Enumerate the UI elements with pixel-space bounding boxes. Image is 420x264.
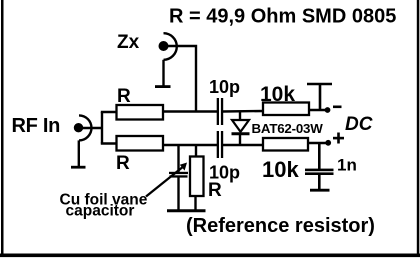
- wire: variable capacitor bottom lead: [177, 178, 179, 211]
- node: DC minus terminal dot: [325, 107, 331, 113]
- border right: [417, 0, 420, 256]
- connector J2 RF In: shield arc: [79, 115, 91, 140]
- resistor R (reference): [190, 157, 204, 197]
- wire: Zx pin to corner: [166, 46, 196, 112]
- wire: reference resistor bottom stub: [194, 196, 196, 210]
- label minus sign: [333, 106, 342, 109]
- wire: variable capacitor top lead: [177, 145, 179, 173]
- connector J2 RF In: center pin dot: [74, 123, 83, 132]
- connector J1 Zx: shield arc: [164, 33, 177, 60]
- svg-text:capacitor: capacitor: [66, 203, 135, 220]
- border left: [1, 0, 4, 256]
- svg-text:BAT62-03W: BAT62-03W: [252, 121, 324, 136]
- wire: top R right lead to C1: [163, 110, 217, 112]
- wire: C3 to ground: [318, 175, 321, 190]
- label plus sign: [333, 137, 344, 140]
- wire: RF In shield to ground: [78, 140, 80, 167]
- svg-text:DC: DC: [345, 114, 373, 135]
- svg-text:R = 49,9 Ohm SMD 0805: R = 49,9 Ohm SMD 0805: [169, 6, 396, 28]
- svg-text:10p: 10p: [209, 77, 240, 97]
- svg-text:(Reference resistor): (Reference resistor): [186, 215, 375, 237]
- wire: top R left lead: [101, 111, 117, 113]
- svg-text:R: R: [208, 180, 222, 201]
- svg-text:Zx: Zx: [117, 32, 140, 53]
- wire: Zx shield to ground: [162, 60, 164, 87]
- svg-text:RF In: RF In: [12, 115, 61, 137]
- wire: bottom 10k right lead: [308, 142, 329, 144]
- svg-text:R: R: [117, 86, 131, 107]
- wire: bottom R left lead: [101, 142, 117, 144]
- wire: plus node to C3: [318, 143, 321, 170]
- connector J1 Zx: center pin dot: [159, 41, 169, 51]
- variable capacitor arrow / callout line: [146, 166, 184, 197]
- svg-text:1n: 1n: [337, 156, 357, 175]
- diode D1 cathode bar: [232, 132, 250, 135]
- wire: bottom R right lead to C2: [163, 144, 217, 146]
- wire: reference resistor top stub: [195, 145, 197, 157]
- diode D1 top lead: [239, 111, 241, 122]
- border bottom: [0, 254, 420, 258]
- open terminal crossbar (minus): [307, 83, 332, 86]
- wire: RF In pin to bridge: [81, 127, 103, 129]
- resistor 10k (bottom): [263, 138, 308, 151]
- capacitor C3 1n plates: [305, 169, 334, 172]
- diode D1 bottom lead: [239, 134, 241, 146]
- ground (C3): [310, 189, 330, 192]
- ground (Zx): [155, 85, 171, 88]
- svg-text:R: R: [116, 153, 130, 174]
- wire: C1 to top 10k: [223, 110, 264, 113]
- wire: top 10k right lead: [309, 109, 328, 111]
- variable capacitor (Cu foil vane) plates: [169, 172, 188, 174]
- resistor R (bottom bridge arm): [117, 136, 164, 151]
- node: DC plus terminal dot: [325, 140, 331, 146]
- capacitor C1 10p plates: [217, 98, 219, 125]
- diode D1 anode triangle: [232, 120, 249, 132]
- ground (shared, variable cap + reference R): [167, 209, 206, 212]
- resistor 10k (top): [263, 103, 309, 116]
- svg-text:10k: 10k: [262, 157, 299, 182]
- wire: minus terminal riser: [319, 84, 322, 110]
- resistor R (top bridge arm): [117, 105, 164, 120]
- capacitor C2 10p plates: [217, 131, 219, 158]
- wire: bridge input vertical: [101, 112, 103, 144]
- ground (RF In): [71, 166, 86, 169]
- wire: C2 to bottom 10k: [223, 144, 264, 146]
